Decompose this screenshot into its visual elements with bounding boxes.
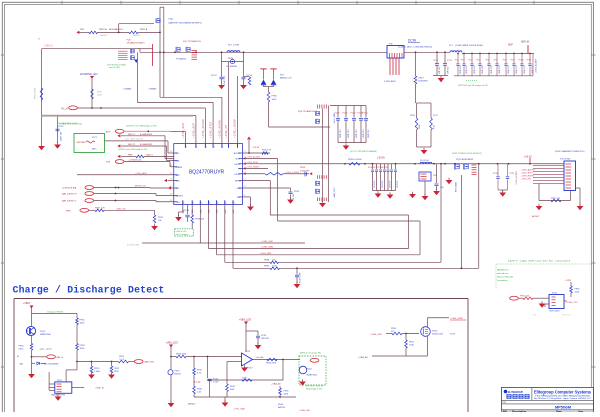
svg-text:PR51: PR51 [409,342,415,344]
svg-text:HVSP5A_EC: HVSP5A_EC [80,72,99,76]
svg-text:100K: 100K [230,389,235,391]
svg-text:(3.3K/2% near GND bridge on PD: (3.3K/2% near GND bridge on PD) [126,126,157,128]
svg-text:+VBAT: +VBAT [23,302,31,305]
svg-text:SRC#1: SRC#1 [128,134,136,136]
svg-text:(3.3K/2% near GND bridge on PD: (3.3K/2% near GND bridge on PD) [118,148,147,151]
svg-text:+V3.3S: +V3.3S [524,157,532,159]
svg-text:ILIM: ILIM [176,161,180,163]
svg-text:1A/2012: 1A/2012 [133,34,141,37]
svg-text:PQ8 TPCA8021-H: PQ8 TPCA8021-H [298,110,316,113]
svg-text:9: 9 [201,203,202,205]
svg-text:(BATTERY DISCHARGE MOSFET): (BATTERY DISCHARGE MOSFET) [169,21,202,24]
svg-text:+VSMB5: +VSMB5 [123,88,132,90]
svg-text:10UF 25V: 10UF 25V [524,65,526,74]
svg-text:+CHG_PH: +CHG_PH [225,125,228,138]
svg-text:ADP_IN: ADP_IN [521,41,530,44]
svg-text:MMBT3904: MMBT3904 [307,375,318,377]
svg-text:Si2301CDS: Si2301CDS [432,334,443,336]
svg-text:LODRV: LODRV [234,174,241,176]
svg-text:+CHG_ACP: +CHG_ACP [193,123,196,138]
svg-text:2.4K: 2.4K [197,392,202,394]
svg-text:+CHG_BTST: +CHG_BTST [210,121,213,138]
svg-text:LEARN: LEARN [176,166,183,169]
svg-text:PTC1: PTC1 [92,137,98,139]
svg-text:+CHG_ACDET: +CHG_ACDET [535,58,538,73]
svg-text:MPU: MPU [66,210,71,212]
svg-text:PR11 A: PR11 A [140,28,148,31]
svg-text:VCC: VCC [176,153,181,155]
svg-text:(2.5A DC JACK +CON4 AND SHIELD: (2.5A DC JACK +CON4 AND SHIELD) [398,46,433,49]
svg-text:10UF 25V: 10UF 25V [516,65,518,74]
svg-text:MMBT3906: MMBT3906 [40,334,52,336]
svg-text:(4/17: add J23 CD-5V for smart: (4/17: add J23 CD-5V for smarter) [508,259,570,262]
svg-text:GND bridge on PD): GND bridge on PD) [306,388,323,391]
svg-text:0.1U: 0.1U [434,124,436,129]
svg-text:PR25 4.7K: PR25 4.7K [262,150,272,152]
svg-text:HIDRV: HIDRV [235,164,242,166]
svg-text:BRIGE_DN: BRIGE_DN [135,186,146,188]
svg-text:PR28 10K: PR28 10K [195,219,205,221]
svg-text:9: 9 [217,203,218,205]
svg-text:PC7: PC7 [494,59,498,61]
svg-text:+CHG_ACDET: +CHG_ACDET [515,170,518,185]
svg-text:PC9: PC9 [511,59,515,61]
svg-text:PR16 100K: PR16 100K [35,87,37,99]
svg-text:2-PIN JACK: 2-PIN JACK [384,80,396,83]
svg-text:+VBA_LDO: +VBA_LDO [166,341,179,344]
svg-text:+CHG_LODRV: +CHG_LODRV [233,119,236,138]
svg-text:+CHG_HIDRV: +CHG_HIDRV [246,167,260,169]
svg-text:PR15: PR15 [80,320,86,322]
svg-text:0.1UF: 0.1UF [213,382,219,384]
svg-text:BAT54C: BAT54C [278,406,286,409]
svg-text:PQ14: PQ14 [307,369,313,371]
svg-text:470K: 470K [19,349,24,351]
svg-text:0.005/1W: 0.005/1W [300,170,309,172]
svg-text:PC3: PC3 [461,59,465,61]
svg-text:2: 2 [245,195,246,197]
svg-text:+CHG_ACDRV: +CHG_ACDRV [521,169,535,172]
svg-text:PR43: PR43 [230,386,236,388]
svg-text:CL_SENSE: CL_SENSE [226,66,237,68]
svg-text:BTST: BTST [236,159,242,161]
svg-text:PU12: PU12 [245,351,251,353]
svg-text:+VBA_3D: +VBA_3D [95,387,105,390]
svg-text:PR13: PR13 [419,78,425,80]
svg-text:100K: 100K [272,99,277,101]
svg-text:PC31: PC31 [493,173,498,175]
svg-text:PR42: PR42 [197,389,203,391]
svg-text:PC22: PC22 [351,113,357,115]
svg-text:near PL (EC): near PL (EC) [109,66,120,69]
svg-text:PC11: PC11 [527,59,532,61]
svg-text:PQ19 BSS138DW: PQ19 BSS138DW [456,159,473,161]
svg-text:PR44 475K: PR44 475K [266,363,277,365]
svg-text:1UF/16V: 1UF/16V [261,338,270,340]
svg-text:100K: 100K [284,394,289,396]
svg-text:10UF 25V: 10UF 25V [508,65,510,74]
svg-text:BZX84: BZX84 [175,374,182,376]
svg-text:10UF 25V: 10UF 25V [466,65,468,74]
svg-text:PR33: PR33 [294,191,300,193]
svg-text:PR24: PR24 [228,58,234,60]
svg-text:+CHG_LODRV: +CHG_LODRV [285,172,300,174]
svg-text:487K: 487K [114,371,119,373]
svg-text:+VBA_AD: +VBA_AD [271,383,281,386]
svg-text:PR25: PR25 [158,217,164,219]
svg-text:A 10A/WSR3: A 10A/WSR3 [140,143,153,146]
svg-text:10UF 25V: 10UF 25V [356,129,358,138]
svg-text:10UF 25V: 10UF 25V [363,129,365,138]
svg-text:BAT_DETECT: BAT_DETECT [62,200,77,203]
svg-text:PD44: PD44 [278,404,284,406]
svg-text:Charge to 98%/W: Charge to 98%/W [47,311,63,314]
svg-text:+CHG_PH: +CHG_PH [521,179,531,181]
svg-text:2.2UH: 2.2UH [233,45,239,47]
svg-text:PC26 PC27 PC28 PC29: PC26 PC27 PC28 PC29 [368,167,389,169]
svg-text:(4.5 TO 24V INPUT RANGE): (4.5 TO 24V INPUT RANGE) [350,150,377,153]
svg-text:+SM_CLK: +SM_CLK [116,208,126,210]
svg-text:10UF25V: 10UF25V [397,180,399,188]
svg-text:1: 1 [214,147,215,149]
svg-text:ADP: ADP [508,44,513,47]
svg-text:+CHG_CD#: +CHG_CD# [566,302,579,304]
svg-text:100K: 100K [272,266,277,268]
svg-text:Charge / Discharge Detect: Charge / Discharge Detect [13,284,165,295]
svg-text:74LVC1G00: 74LVC1G00 [549,311,559,313]
svg-text:100K: 100K [242,377,247,379]
svg-text:PC36 0.1UF: PC36 0.1UF [300,272,302,283]
svg-text:(1.5A POWER CHOKE 33UH): (1.5A POWER CHOKE 33UH) [455,44,483,47]
svg-text:PR30 0.01/1W: PR30 0.01/1W [348,159,362,161]
svg-text:PC8: PC8 [503,59,507,61]
svg-text:PC12: PC12 [434,60,439,62]
svg-text:PR27 4.7K: PR27 4.7K [95,207,106,209]
svg-text:1.00M: 1.00M [94,371,100,373]
svg-text:(san - SRC near PD): (san - SRC near PD) [126,137,144,140]
svg-text:PC17: PC17 [433,115,438,117]
svg-text:+CHG_LBAT: +CHG_LBAT [233,408,246,411]
svg-text:BAT024: BAT024 [188,403,196,406]
svg-text:+CHG_IADP: +CHG_IADP [135,172,147,175]
svg-text:+CHG_ILIM: +CHG_ILIM [261,241,273,243]
svg-text:(NO"TEXT" near TH: (NO"TEXT" near TH [306,385,324,388]
svg-text:9: 9 [209,203,210,205]
svg-text:10UF25V: 10UF25V [374,180,376,188]
svg-text:8.2K: 8.2K [197,373,202,375]
svg-text:PJ2 CON8: PJ2 CON8 [560,159,571,161]
svg-text:BAT+: BAT+ [92,148,98,151]
svg-text:PC5: PC5 [477,59,481,61]
svg-text:+CHG_LED: +CHG_LED [370,334,382,336]
svg-text:150K: 150K [80,348,85,350]
svg-text:10UF 16V: 10UF 16V [61,131,63,141]
svg-text:1: 1 [186,147,187,149]
svg-text:(FOR POWER GOOD DETECT): (FOR POWER GOOD DETECT) [452,153,482,155]
svg-text:10UF 25V: 10UF 25V [368,129,370,138]
svg-text:(2 PCS IN lower ESR): (2 PCS IN lower ESR) [107,63,126,66]
svg-text:+A_DAC: +A_DAC [256,356,264,359]
svg-text:transmitting: transmitting [497,279,507,282]
svg-text:+BAT_CHG: +BAT_CHG [333,187,336,198]
svg-text:PC20: PC20 [335,113,341,115]
svg-text:0.1UF: 0.1UF [293,193,295,199]
svg-text:not TI charger): not TI charger) [176,233,189,236]
svg-text:IADP: IADP [176,174,181,177]
svg-text:12B, 140/V: 12B, 140/V [40,348,53,351]
svg-text:SRN: SRN [176,181,181,183]
svg-text:1: 1 [206,147,207,149]
svg-text:planned item: planned item [497,272,509,275]
svg-text:A 10A/WSR3: A 10A/WSR3 [140,133,153,136]
svg-text:PL4 1UH: PL4 1UH [420,160,429,162]
svg-text:1: 1 [222,147,223,149]
svg-text:PC45: PC45 [450,334,456,336]
svg-text:100K: 100K [80,323,85,325]
svg-text:+VPB: +VPB [565,280,571,282]
svg-text:TEL:886(2)21081111 FAX:886(2)2: TEL:886(2)21081111 FAX:886(2)21081300 [535,394,590,397]
svg-text:SCL: SCL [237,197,241,199]
svg-text:+CHG_BTST: +CHG_BTST [521,173,534,175]
svg-text:PR89: PR89 [264,266,270,268]
svg-text:PC6: PC6 [486,59,490,61]
svg-text:ACP: ACP [106,131,111,134]
svg-text:[ 5BV1 ]: [ 5BV1 ] [44,43,54,47]
svg-text:PQ7 TPCA8021-H: PQ7 TPCA8021-H [183,40,201,43]
svg-text:BAT_H: BAT_H [57,356,64,359]
svg-text:PASSED/CD: PASSED/CD [497,269,509,272]
svg-text:+CHG_ACDRV: +CHG_ACDRV [246,156,261,159]
svg-text:PC32: PC32 [510,173,515,175]
svg-text:PQ13: PQ13 [432,331,438,333]
svg-text:10UF 25V: 10UF 25V [340,129,342,138]
svg-text:+CHG_BTST: +CHG_BTST [246,162,259,164]
svg-text:U_MODULE/A: U_MODULE/A [62,187,77,190]
svg-text:10UF 25V: 10UF 25V [460,65,462,74]
svg-text:SMT PAD: SMT PAD [77,141,86,144]
svg-text:BAT54C-7-F: BAT54C-7-F [280,77,292,80]
svg-text:10UF 25V: 10UF 25V [224,75,226,85]
svg-text:PC21: PC21 [343,113,349,115]
svg-text:No.239,Sec.2,Ti Ding Blvd., Ta: No.239,Sec.2,Ti Ding Blvd., Taipei, Taiw… [534,398,592,400]
svg-text:+V3.3S: +V3.3S [252,147,260,149]
svg-text:BATDET: BATDET [176,195,184,198]
svg-text:CELL: CELL [176,202,181,204]
svg-text:PC40: PC40 [261,335,267,337]
svg-text:PR87 10K: PR87 10K [551,198,561,200]
svg-text:(10K for 745: (10K for 745 [176,230,186,233]
svg-text:(FOR CHARGER POWER 19V): (FOR CHARGER POWER 19V) [555,150,585,153]
svg-text:+CHG_HIDRV: +CHG_HIDRV [219,120,222,138]
svg-text:ELITEGROUP: ELITEGROUP [508,392,523,394]
svg-text:+CHG_ACN: +CHG_ACN [182,123,185,138]
svg-text:ICM: ICM [106,161,110,163]
svg-text:+CHG_HIDRV: +CHG_HIDRV [521,176,535,178]
svg-text:9: 9 [193,203,194,205]
svg-text:F0T10117: F0T10117 [562,315,572,317]
svg-text:+CHG_SRP: +CHG_SRP [260,253,272,255]
svg-text:+CHG_ACDRV: +CHG_ACDRV [202,119,205,138]
svg-text:PR17: PR17 [97,92,103,94]
svg-text:10UF25V: 10UF25V [390,180,392,188]
svg-text:BLM18AG601: BLM18AG601 [109,28,124,31]
svg-text:+VBA_AD: +VBA_AD [358,356,368,359]
svg-text:100K: 100K [409,345,414,347]
svg-text:PR14: PR14 [19,346,25,348]
svg-text:PR88: PR88 [264,260,270,262]
svg-text:ACDRV: ACDRV [234,152,241,155]
svg-text:PC2: PC2 [455,59,459,61]
svg-text:PD12 1N4148WS: PD12 1N4148WS [43,363,59,365]
svg-text:SRC#2: SRC#2 [128,144,136,146]
svg-text:PR12 A: PR12 A [99,28,107,31]
svg-text:10UF 25V: 10UF 25V [491,65,493,74]
svg-text:+A_LAD: +A_LAD [193,380,201,383]
svg-text:PC16: PC16 [58,126,64,128]
svg-text:PD13: PD13 [175,371,181,373]
svg-text:10UF 25V: 10UF 25V [499,65,501,74]
svg-text:10UF 25V: 10UF 25V [482,65,484,74]
svg-text:PC24: PC24 [363,113,369,115]
svg-text:PQ10: PQ10 [40,331,46,333]
svg-text:PR91 10K: PR91 10K [520,295,530,297]
svg-text:2: 2 [245,186,246,188]
svg-text:100K: 100K [575,292,580,294]
svg-text:PU14: PU14 [552,293,558,295]
svg-text:+CHG_SRN: +CHG_SRN [261,247,273,249]
svg-text:9: 9 [225,203,226,205]
svg-text:DCIN: DCIN [408,39,417,43]
svg-text:PR45: PR45 [284,391,290,393]
svg-text:BAT_DETECT#: BAT_DETECT# [62,193,78,196]
svg-text:1A/2012: 1A/2012 [100,34,108,37]
svg-text:ACDET: ACDET [532,215,540,218]
svg-text:L-DCIN: L-DCIN [377,158,385,160]
svg-text:+CHG_SLED: +CHG_SLED [450,318,463,320]
svg-text:PC4: PC4 [469,59,473,61]
svg-text:REGN: REGN [235,181,241,183]
svg-text:PR41: PR41 [197,370,203,372]
svg-text:PR18: PR18 [80,345,86,347]
svg-text:BSS138DW: BSS138DW [456,182,458,192]
svg-text:PC19: PC19 [184,210,190,212]
svg-text:PR29: PR29 [300,167,306,169]
svg-text:BLM18KG: BLM18KG [419,81,429,83]
svg-text:+VBA_LDO: +VBA_LDO [239,318,252,321]
svg-text:TPCA8021-H(SBY): TPCA8021-H(SBY) [127,42,145,45]
svg-text:+VSMB5: +VSMB5 [148,88,157,90]
svg-text:100K: 100K [97,95,102,97]
svg-text:follower DECODE: follower DECODE [497,277,514,279]
svg-text:MP50GM: MP50GM [555,405,571,409]
svg-text:DAC#1: DAC#1 [146,154,154,157]
svg-text:(NPN for discharge TH): (NPN for discharge TH) [300,353,321,355]
svg-text:TPCA8021: TPCA8021 [176,58,187,61]
svg-text:PC13: PC13 [447,60,452,62]
svg-text:PL_H: PL_H [62,107,68,110]
svg-text:9: 9 [234,203,235,205]
svg-text:Elitegroup Computer Systems: Elitegroup Computer Systems [534,389,592,394]
svg-text:10UF25V: 10UF25V [382,180,384,188]
svg-text:PR20: PR20 [94,368,100,370]
svg-text:1: 1 [196,147,197,149]
svg-text:I.D (BU) R470 2012/05/31: I.D (BU) R470 2012/05/31 [59,124,83,126]
svg-text:PC10: PC10 [519,59,524,61]
svg-text:1UF 50V: 1UF 50V [439,66,441,74]
svg-text:PR21: PR21 [114,368,120,370]
svg-text:9: 9 [183,203,184,205]
svg-text:100K: 100K [419,124,421,129]
svg-text:PC14: PC14 [211,75,217,77]
svg-text:BQ24770RUYR: BQ24770RUYR [189,169,225,175]
svg-text:1UF 50V: 1UF 50V [448,66,450,74]
svg-text:BATLOW#: BATLOW# [145,361,156,364]
svg-text:75.0K: 75.0K [119,359,125,361]
svg-text:PR06: PR06 [272,96,278,98]
svg-text:MAX809STRG: MAX809STRG [51,394,65,397]
svg-text:PR90: PR90 [575,289,581,291]
svg-text:PR14: PR14 [410,115,415,117]
svg-text:PQ6: PQ6 [169,19,174,21]
svg-text:(X5R 16V over 5R change on 5V): (X5R 16V over 5R change on 5V) [458,85,488,87]
svg-text:PR19: PR19 [119,356,125,358]
svg-text:10UF 25V: 10UF 25V [348,129,350,138]
svg-text:5T-DW_CHG: 5T-DW_CHG [127,244,140,246]
svg-text:10UF 25V: 10UF 25V [474,65,476,74]
svg-text:PR50: PR50 [391,328,397,330]
svg-text:PR40 100K: PR40 100K [176,354,187,356]
